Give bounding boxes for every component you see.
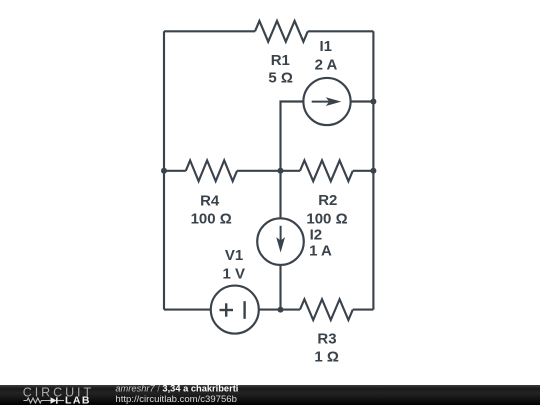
wire middle rail right segment [353,170,374,172]
wire bottom rail right segment [353,309,374,311]
svg-text:R2: R2 [318,192,337,209]
wire bottom rail middle segment [259,309,300,311]
svg-text:2 A: 2 A [315,56,338,73]
wire bottom rail left segment [164,309,210,311]
svg-text:R4: R4 [200,193,220,210]
wire I1 right lead [351,100,374,102]
svg-text:100 Ω: 100 Ω [306,210,347,227]
wire top rail right segment [308,30,374,32]
wire middle rail left of R4 [164,170,186,172]
svg-text:5 Ω: 5 Ω [268,70,293,87]
svg-text:R3: R3 [317,330,336,347]
node junction I1-right [370,99,376,105]
svg-text:1 Ω: 1 Ω [314,349,339,366]
voltage source V1 [211,286,259,334]
svg-text:V1: V1 [225,247,243,264]
current source I1 [303,78,350,125]
I1 arrow line [312,101,329,103]
svg-text:R1: R1 [271,52,290,69]
node junction left-middle [161,168,167,174]
wire left rail [163,31,165,309]
footer bar [0,385,540,405]
logo resistor zigzag [24,398,49,403]
wire I1 left lead and center branch upper [281,102,304,219]
current source I2 [257,218,304,265]
node junction right-middle [370,168,376,174]
wire right rail [372,31,374,309]
I2 arrow line [280,226,282,243]
V1 plus sign [220,309,234,311]
svg-text:1 A: 1 A [309,243,332,260]
I1 arrow head [326,97,342,106]
svg-text:100 Ω: 100 Ω [191,210,232,227]
node junction center-bottom [278,307,284,313]
resistor R3 [300,299,353,320]
node junction center-middle [278,168,284,174]
resistor R2 [300,160,353,181]
svg-text:I2: I2 [310,226,323,243]
V1 minus sign (rotated) [243,301,245,319]
svg-text:1 V: 1 V [222,265,245,282]
logo diode [51,397,57,403]
resistor R1 [255,21,308,42]
I2 arrow head [276,237,285,253]
svg-text:I1: I1 [319,38,332,55]
wire top rail left segment [164,30,255,32]
resistor R4 [186,160,237,181]
wire middle rail center segment [237,170,300,172]
wire center branch lower [279,265,281,310]
